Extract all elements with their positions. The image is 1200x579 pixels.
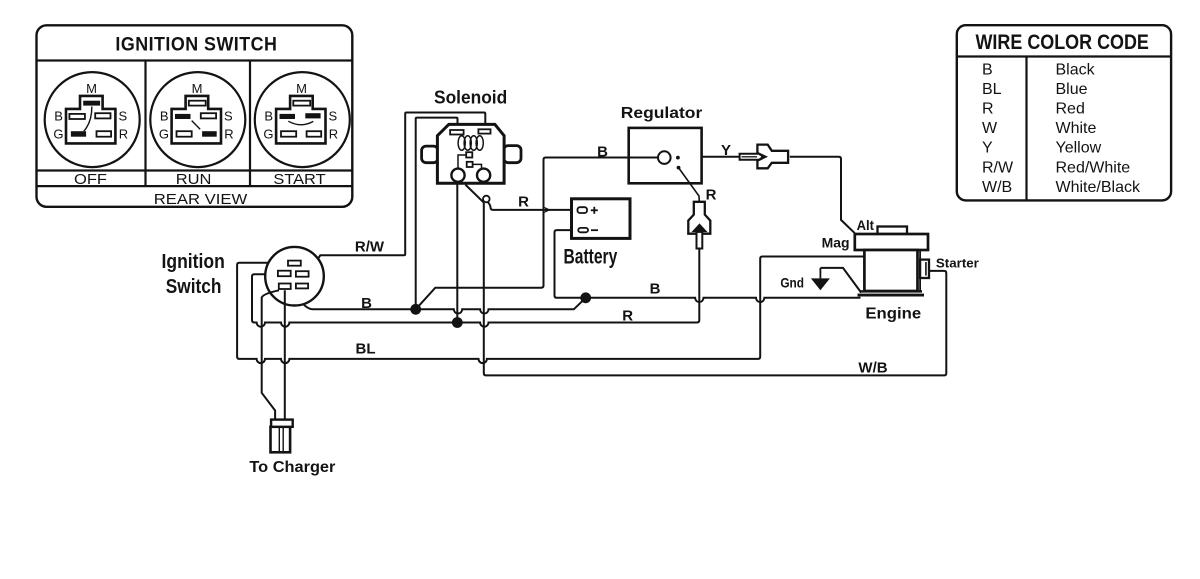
junction dot 1 <box>410 304 421 315</box>
svg-text:Solenoid: Solenoid <box>434 88 507 108</box>
svg-text:Mag: Mag <box>822 236 850 251</box>
svg-text:R: R <box>224 126 233 141</box>
wire B: junction 3 to engine block <box>586 298 861 302</box>
svg-text:Y: Y <box>721 142 731 159</box>
svg-text:R/W: R/W <box>355 238 385 255</box>
ground symbol <box>811 268 830 290</box>
svg-text:START: START <box>273 171 325 188</box>
junction dot 3 <box>580 292 591 303</box>
charger wire A <box>262 290 279 419</box>
svg-text:Red: Red <box>1056 101 1085 118</box>
arrowhead into battery plus <box>544 207 551 214</box>
svg-text:IGNITION SWITCH: IGNITION SWITCH <box>115 35 277 56</box>
wire color code table <box>957 25 1171 200</box>
svg-text:White/Black: White/Black <box>1056 179 1141 196</box>
svg-text:To Charger: To Charger <box>249 459 335 476</box>
engine: alternator housing <box>855 234 928 250</box>
svg-text:B: B <box>982 61 993 78</box>
solenoid switch points <box>451 152 490 182</box>
svg-text:S: S <box>329 109 338 124</box>
svg-text:Y: Y <box>982 140 993 157</box>
svg-text:W/B: W/B <box>982 179 1012 196</box>
svg-text:White: White <box>1056 120 1097 137</box>
svg-text:S: S <box>224 109 233 124</box>
svg-text:G: G <box>263 126 273 141</box>
bullet connector on R wire <box>483 196 490 203</box>
svg-text:Switch: Switch <box>166 276 222 298</box>
svg-text:G: G <box>159 126 169 141</box>
quick-disconnect connector on R wire (vertical) <box>688 202 710 249</box>
svg-text:S: S <box>118 109 127 124</box>
keyswitch rear view OFF <box>45 72 140 167</box>
svg-text:WIRE COLOR CODE: WIRE COLOR CODE <box>976 31 1149 54</box>
svg-text:BL: BL <box>982 81 1002 98</box>
wire Y: regulator to connector to engine Alt <box>702 157 855 233</box>
ignition switch legend box <box>37 25 353 208</box>
svg-text:B: B <box>650 281 661 298</box>
svg-text:W: W <box>982 120 998 137</box>
svg-text:B: B <box>54 109 63 124</box>
svg-text:Gnd: Gnd <box>780 276 804 291</box>
svg-text:OFF: OFF <box>74 171 107 188</box>
svg-text:R: R <box>329 126 338 141</box>
wire B: junction to regulator <box>416 158 629 310</box>
wire R: solenoid contact via bullet connector to battery plus <box>488 202 572 210</box>
svg-text:W/B: W/B <box>858 360 887 377</box>
svg-text:M: M <box>192 81 203 96</box>
svg-text:R: R <box>119 126 128 141</box>
svg-text:B: B <box>361 295 372 312</box>
quick-disconnect connector on Y wire <box>740 145 789 169</box>
svg-text:REAR VIEW: REAR VIEW <box>154 191 248 208</box>
wire B: switch terminal to junction, battery minus, engine block <box>292 290 586 313</box>
solenoid coil <box>458 136 483 151</box>
wire R/W: switch terminal to solenoid coil terminal <box>309 113 486 274</box>
svg-text:B: B <box>160 109 169 124</box>
charger connector <box>271 420 293 453</box>
svg-text:M: M <box>296 81 307 96</box>
wire W/B: down and across to starter <box>484 203 947 376</box>
svg-text:RUN: RUN <box>176 171 212 188</box>
svg-text:R/W: R/W <box>982 159 1014 176</box>
svg-text:B: B <box>264 109 273 124</box>
svg-text:BL: BL <box>356 341 376 358</box>
svg-text:B: B <box>597 143 608 160</box>
wire BL: switch M terminal to engine Mag <box>237 257 864 364</box>
wire R: solenoid left contact down to R bus (junction 2) <box>456 184 458 323</box>
svg-text:Alt: Alt <box>857 218 875 233</box>
svg-text:Regulator: Regulator <box>621 105 703 122</box>
solenoid <box>422 124 521 183</box>
engine: starter tab <box>920 260 929 278</box>
svg-text:M: M <box>86 81 97 96</box>
svg-text:Yellow: Yellow <box>1056 140 1102 157</box>
ignition switch connector circle <box>265 247 324 306</box>
svg-text:R: R <box>706 187 717 204</box>
charger wire B <box>284 290 286 419</box>
wire R: switch terminal to R bus, regulator connector <box>252 249 699 327</box>
battery <box>572 199 631 239</box>
engine: base plate <box>860 290 923 292</box>
gnd connection diagonal to engine base <box>820 268 861 293</box>
svg-text:Starter: Starter <box>936 255 979 270</box>
svg-text:G: G <box>53 126 63 141</box>
wire B: junction to solenoid coil terminal <box>416 118 458 310</box>
svg-text:Ignition: Ignition <box>162 251 225 273</box>
regulator <box>629 128 702 202</box>
svg-text:R: R <box>518 193 529 210</box>
wire B: junction 3 to battery minus <box>555 230 586 298</box>
svg-text:R: R <box>982 101 994 118</box>
engine: main block <box>864 250 920 291</box>
svg-text:Black: Black <box>1056 61 1096 78</box>
svg-text:Battery: Battery <box>564 245 618 268</box>
keyswitch rear view RUN <box>150 72 245 167</box>
wire W/B: solenoid right contact diagonal <box>465 185 484 203</box>
svg-text:Red/White: Red/White <box>1056 159 1131 176</box>
engine: alternator cap <box>878 227 908 235</box>
keyswitch rear view START <box>255 72 350 167</box>
svg-text:Engine: Engine <box>865 306 921 323</box>
svg-text:Blue: Blue <box>1056 81 1088 98</box>
junction dot 2 <box>452 317 463 328</box>
svg-text:R: R <box>622 307 633 324</box>
